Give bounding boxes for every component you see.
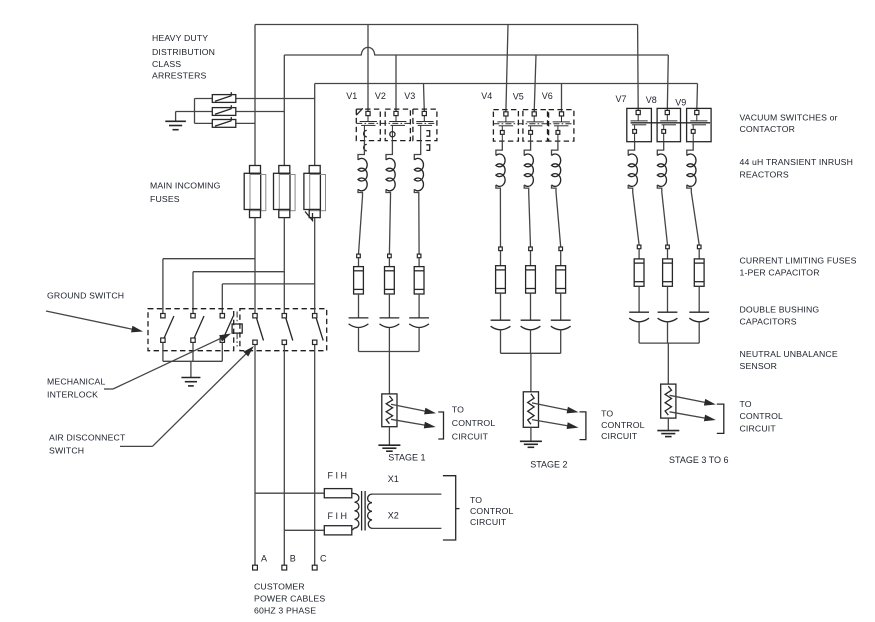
reactor L11 bbox=[358, 141, 364, 160]
wire riser phase A upper bbox=[254, 25, 256, 166]
air disconnect dashed enclosure bbox=[240, 309, 327, 351]
vacuum switch V1 contacts bbox=[366, 111, 370, 115]
vacuum switch V5 enclosure bbox=[523, 110, 548, 142]
tick at fuse C bottom bbox=[305, 212, 313, 221]
wire arrester common bar bbox=[194, 99, 196, 124]
transformer T1 secondary winding bbox=[368, 494, 372, 528]
current limiting fuse 1F2 bbox=[388, 254, 392, 258]
arrow sensor 2 upper bbox=[532, 403, 573, 411]
svg-text:CUSTOMER: CUSTOMER bbox=[254, 582, 305, 592]
double bushing capacitor 2C2 bbox=[521, 319, 541, 321]
svg-text:V9: V9 bbox=[675, 98, 686, 108]
wire drop to V3 bbox=[423, 84, 426, 112]
neutral unbalance sensor stage 1 bbox=[382, 394, 397, 427]
bracket to-control stage 2 bbox=[580, 412, 586, 440]
wire neutral bus stage 2 bbox=[501, 352, 561, 354]
svg-text:V7: V7 bbox=[616, 94, 627, 104]
svg-text:CURRENT LIMITING FUSES: CURRENT LIMITING FUSES bbox=[740, 256, 857, 266]
wire riser phase B upper bbox=[283, 55, 285, 166]
svg-text:CONTACTOR: CONTACTOR bbox=[740, 124, 796, 134]
wire drop to V4 bbox=[506, 25, 508, 112]
ground symbol ground-switch bbox=[190, 361, 192, 377]
svg-text:X1: X1 bbox=[388, 474, 399, 484]
ground arrester bank bbox=[175, 112, 177, 122]
current limiting fuse 1F1 bbox=[357, 254, 361, 258]
wire drop to V9 bbox=[696, 84, 699, 111]
arrester top (phase C) bbox=[212, 95, 236, 103]
vacuum switch V2 enclosure bbox=[385, 109, 410, 141]
reactor L21 bbox=[496, 141, 502, 155]
current limiting fuse 3F3 bbox=[697, 245, 701, 249]
wire neutral bus stage 1 bbox=[359, 351, 420, 353]
svg-text:CIRCUIT: CIRCUIT bbox=[601, 431, 638, 441]
vacuum switch V9 contacts bbox=[695, 110, 699, 114]
wire bus phase B top with crossover hump bbox=[284, 47, 668, 55]
wire tap phase A to control fuse bbox=[255, 492, 324, 494]
svg-text:CONTROL: CONTROL bbox=[601, 420, 645, 430]
terminal phase B bbox=[282, 565, 287, 570]
wire neutral bus stage 3 bbox=[639, 342, 699, 344]
svg-text:AIR DISCONNECT: AIR DISCONNECT bbox=[49, 433, 126, 443]
reactor L32 bbox=[657, 142, 663, 156]
vacuum switch V3 contacts bbox=[422, 111, 426, 115]
svg-text:V8: V8 bbox=[646, 95, 657, 105]
wire drop to V5 bbox=[534, 55, 536, 112]
transformer T1 primary winding bbox=[352, 493, 359, 530]
wire drop to V7 bbox=[637, 25, 640, 111]
svg-text:V1: V1 bbox=[346, 91, 357, 101]
svg-text:C: C bbox=[320, 554, 327, 564]
double bushing capacitor 2C1 bbox=[491, 319, 511, 321]
reactor L22 bbox=[524, 141, 530, 155]
arrow sensor 1 lower bbox=[391, 419, 430, 426]
double bushing capacitor 1C2 bbox=[380, 317, 400, 319]
double bushing capacitor 3C1 bbox=[629, 311, 649, 313]
arrow leader ground switch bbox=[46, 311, 137, 330]
wire X1 bbox=[372, 493, 441, 495]
arrow leader mechanical interlock bbox=[104, 388, 113, 390]
wire riser phase A lower bbox=[254, 218, 256, 314]
svg-text:REACTORS: REACTORS bbox=[740, 170, 789, 180]
vacuum switch V4 enclosure bbox=[493, 110, 518, 142]
arrow sensor 3 lower bbox=[670, 412, 710, 419]
ground stage 2 bbox=[530, 427, 532, 441]
svg-text:44 uH TRANSIENT INRUSH: 44 uH TRANSIENT INRUSH bbox=[740, 157, 854, 167]
double bushing capacitor 1C3 bbox=[409, 317, 429, 319]
vacuum switch V2 contacts bbox=[394, 111, 398, 115]
vacuum switch V6 enclosure bbox=[549, 110, 574, 142]
wire neutral drop stage 1 bbox=[388, 352, 390, 394]
vacuum switch V9 enclosure bbox=[687, 108, 712, 141]
svg-text:B: B bbox=[290, 554, 296, 564]
svg-text:CAPACITORS: CAPACITORS bbox=[740, 317, 797, 327]
arrester bottom (phase A) bbox=[212, 120, 236, 128]
bracket to-control stage 1 bbox=[438, 412, 443, 439]
reactor L13 bbox=[414, 141, 420, 160]
reactor L31 bbox=[628, 142, 634, 156]
svg-text:V4: V4 bbox=[481, 91, 492, 101]
svg-text:SENSOR: SENSOR bbox=[740, 361, 778, 371]
vacuum switch V4 contacts bbox=[504, 112, 508, 116]
ground stage 1 bbox=[388, 427, 390, 446]
bracket to-control stage 3 bbox=[717, 404, 724, 433]
current limiting fuse 1F3 bbox=[417, 254, 421, 258]
svg-text:CONTROL: CONTROL bbox=[470, 506, 514, 516]
current limiting fuse 2F3 bbox=[559, 247, 563, 251]
terminal phase A bbox=[253, 565, 258, 570]
current limiting fuse 3F2 bbox=[666, 245, 670, 249]
svg-text:1-PER CAPACITOR: 1-PER CAPACITOR bbox=[740, 268, 820, 278]
svg-text:HEAVY DUTY: HEAVY DUTY bbox=[152, 33, 208, 43]
arrow sensor 3 upper bbox=[670, 395, 710, 403]
wire neutral drop stage 2 bbox=[530, 353, 532, 392]
wire riser phase B lower bbox=[283, 218, 285, 314]
wire riser phase C upper bbox=[314, 84, 316, 166]
wire ground switch common bbox=[163, 360, 222, 362]
vacuum switch V7 enclosure bbox=[627, 108, 652, 141]
svg-text:60HZ 3 PHASE: 60HZ 3 PHASE bbox=[254, 606, 316, 616]
main incoming fuse phase A bbox=[244, 173, 261, 209]
svg-text:X2: X2 bbox=[388, 511, 399, 521]
svg-text:VACUUM SWITCHES or: VACUUM SWITCHES or bbox=[740, 113, 838, 123]
svg-text:CONTROL: CONTROL bbox=[740, 411, 784, 421]
transformer T1 core bbox=[361, 491, 363, 531]
svg-text:POWER CABLES: POWER CABLES bbox=[254, 594, 325, 604]
current limiting fuse 2F2 bbox=[529, 247, 533, 251]
svg-text:DISTRIBUTION: DISTRIBUTION bbox=[152, 47, 215, 57]
bracket to-control transformer bbox=[443, 476, 456, 540]
mechanical linkage bar bbox=[631, 122, 711, 124]
vacuum switch V8 enclosure bbox=[657, 108, 680, 141]
neutral unbalance sensor stage 3 bbox=[661, 384, 676, 418]
svg-text:STAGE 2: STAGE 2 bbox=[530, 459, 567, 469]
reactor L12 bbox=[386, 141, 392, 160]
wire drop to V2 bbox=[395, 55, 397, 111]
wire X2 bbox=[372, 527, 441, 529]
svg-text:GROUND SWITCH: GROUND SWITCH bbox=[47, 291, 124, 301]
wire drop to V8 bbox=[667, 55, 668, 110]
wire drop to V6 bbox=[561, 84, 563, 112]
arrow leader air disconnect switch bbox=[120, 445, 152, 447]
double bushing capacitor 1C1 bbox=[349, 317, 369, 319]
svg-text:V3: V3 bbox=[404, 91, 415, 101]
svg-text:CIRCUIT: CIRCUIT bbox=[470, 517, 507, 527]
wire tap phase B to control fuse bbox=[284, 529, 324, 531]
ground switch pole 3 bbox=[220, 314, 224, 318]
vacuum switch V1 enclosure bbox=[356, 109, 380, 141]
svg-text:CIRCUIT: CIRCUIT bbox=[452, 431, 489, 441]
arrow sensor 2 lower bbox=[532, 420, 573, 427]
arrester middle (phase B) bbox=[212, 108, 236, 116]
svg-text:FUSES: FUSES bbox=[150, 194, 180, 204]
air disconnect pole 2 bbox=[282, 314, 286, 318]
svg-text:F I H: F I H bbox=[328, 511, 348, 521]
current limiting fuse 2F1 bbox=[499, 247, 503, 251]
vacuum switch V8 contacts bbox=[665, 110, 669, 114]
svg-text:TO: TO bbox=[452, 404, 464, 414]
svg-text:V5: V5 bbox=[513, 92, 524, 102]
ground switch pole 1 bbox=[161, 314, 165, 318]
mechanical interlock box bbox=[232, 324, 242, 333]
air disconnect pole 3 bbox=[313, 314, 317, 318]
svg-text:V2: V2 bbox=[375, 91, 386, 101]
wire bus phase A top bbox=[255, 24, 638, 26]
svg-text:CIRCUIT: CIRCUIT bbox=[740, 424, 777, 434]
svg-text:TO: TO bbox=[740, 399, 752, 409]
svg-text:MECHANICAL: MECHANICAL bbox=[47, 377, 105, 387]
neutral unbalance sensor stage 2 bbox=[523, 392, 538, 428]
svg-text:TO: TO bbox=[601, 408, 613, 418]
ground switch pole 2 bbox=[191, 314, 195, 318]
wire bus phase C top bbox=[315, 83, 698, 85]
blade mark at V1 box corner bbox=[356, 108, 363, 115]
current limiting fuse 3F1 bbox=[637, 245, 641, 249]
svg-text:F I H: F I H bbox=[328, 471, 348, 481]
svg-text:DOUBLE BUSHING: DOUBLE BUSHING bbox=[740, 305, 820, 315]
wire drop to V1 bbox=[367, 25, 369, 112]
wire arrester top lead bbox=[195, 98, 213, 100]
main incoming fuse phase B bbox=[274, 173, 291, 209]
wire ground-switch tap A bbox=[163, 258, 255, 260]
svg-text:ARRESTERS: ARRESTERS bbox=[152, 71, 207, 81]
mechanical linkage dash-dot bbox=[493, 123, 574, 125]
double bushing capacitor 3C2 bbox=[658, 311, 678, 313]
ground stage 3 bbox=[667, 418, 669, 431]
vacuum switch V6 contacts bbox=[559, 112, 563, 116]
air disconnect pole 1 bbox=[253, 314, 257, 318]
double bushing capacitor 3C3 bbox=[689, 311, 709, 313]
svg-text:NEUTRAL UNBALANCE: NEUTRAL UNBALANCE bbox=[740, 349, 838, 359]
reactor L33 bbox=[687, 142, 693, 156]
wire ground-switch tap C bbox=[222, 283, 314, 285]
control fuse F1H phase B bbox=[324, 526, 352, 535]
double bushing capacitor 2C3 bbox=[551, 319, 571, 321]
svg-text:STAGE 1: STAGE 1 bbox=[388, 453, 425, 463]
reactor L23 bbox=[552, 141, 558, 155]
vacuum switch V5 contacts bbox=[532, 112, 536, 116]
control fuse F1H phase A bbox=[324, 489, 352, 498]
svg-text:SWITCH: SWITCH bbox=[49, 446, 84, 456]
wire arrester middle lead bbox=[176, 111, 213, 113]
main incoming fuse phase C bbox=[304, 173, 321, 209]
svg-text:MAIN INCOMING: MAIN INCOMING bbox=[150, 181, 221, 191]
svg-text:STAGE 3 TO 6: STAGE 3 TO 6 bbox=[669, 455, 729, 465]
terminal phase C bbox=[312, 565, 317, 570]
svg-text:A: A bbox=[261, 554, 267, 564]
ground switch dashed enclosure bbox=[148, 309, 234, 351]
mechanical linkage dash-dot bbox=[356, 122, 437, 124]
svg-text:CLASS: CLASS bbox=[152, 59, 181, 69]
wire neutral drop stage 3 bbox=[667, 343, 669, 384]
svg-text:INTERLOCK: INTERLOCK bbox=[47, 390, 98, 400]
svg-text:TO: TO bbox=[470, 495, 482, 505]
wire arrester bottom lead bbox=[195, 122, 213, 124]
svg-text:V6: V6 bbox=[542, 91, 553, 101]
wire riser phase C lower bbox=[314, 218, 316, 314]
svg-text:CONTROL: CONTROL bbox=[452, 418, 496, 428]
wire ground-switch tap B bbox=[193, 271, 284, 273]
vacuum switch V3 enclosure bbox=[413, 109, 437, 141]
arrow sensor 1 upper bbox=[391, 404, 430, 412]
vacuum switch V7 contacts bbox=[636, 110, 640, 114]
